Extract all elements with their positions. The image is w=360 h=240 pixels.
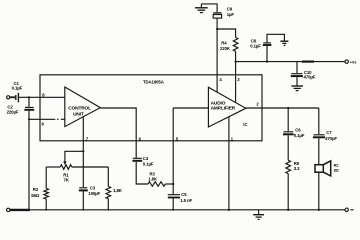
- wire: [287, 174, 289, 210]
- svg-text:AMPLIFIER: AMPLIFIER: [211, 106, 236, 112]
- ground top: [195, 4, 208, 13]
- svg-text:+Vs: +Vs: [350, 60, 357, 64]
- svg-text:0.1µF: 0.1µF: [143, 161, 154, 166]
- wire pin4: [216, 29, 218, 92]
- wire: [216, 18, 218, 29]
- wire: [82, 192, 84, 210]
- svg-text:UNIT: UNIT: [73, 111, 84, 117]
- svg-text:1.8K: 1.8K: [148, 177, 158, 182]
- wire pin3: [235, 51, 237, 102]
- node C8 junction: [266, 61, 268, 63]
- ground C10: [291, 86, 303, 91]
- node wiper junction: [82, 150, 84, 152]
- resistor R3: [148, 182, 165, 187]
- svg-text:9: 9: [42, 122, 45, 127]
- wire pin1: [228, 117, 230, 210]
- terminal bottom right: [345, 208, 348, 211]
- ground bottom: [253, 210, 264, 220]
- svg-text:8Ω: 8Ω: [334, 167, 339, 172]
- wire control output: [100, 108, 136, 158]
- input terminal IN: [7, 96, 10, 99]
- svg-text:TDA1905A: TDA1905A: [143, 80, 164, 85]
- wire pin5 vertical: [172, 108, 174, 194]
- wire: [136, 162, 148, 184]
- wire +V rail: [236, 61, 345, 63]
- node R3 junction: [172, 183, 174, 185]
- node pin9 junction: [28, 118, 30, 120]
- node output junction: [287, 107, 289, 109]
- wire: [318, 108, 320, 134]
- terminal +Vs: [345, 60, 348, 63]
- wire: [28, 97, 30, 107]
- wiper arrow: [63, 161, 66, 165]
- wire: [10, 96, 15, 98]
- svg-text:R2: R2: [33, 187, 39, 192]
- wire pin9: [29, 118, 65, 120]
- svg-text:CONTROL: CONTROL: [68, 106, 91, 112]
- capacitor C1: [16, 93, 19, 103]
- svg-text:470µF: 470µF: [304, 75, 316, 80]
- capacitor C6: [284, 131, 294, 133]
- svg-text:220µF: 220µF: [7, 110, 19, 115]
- capacitor C3: [79, 187, 87, 189]
- ground C8: [280, 41, 288, 45]
- wire pin7: [82, 117, 84, 187]
- wire R4 top: [217, 29, 236, 38]
- svg-text:AUDIO: AUDIO: [211, 100, 226, 106]
- svg-text:1µF: 1µF: [227, 12, 235, 17]
- wire: [287, 108, 289, 131]
- resistor R2: [44, 188, 49, 199]
- op-amp audio amplifier triangle: [208, 87, 245, 127]
- wire: [266, 46, 268, 62]
- wire output pin2: [246, 107, 319, 109]
- wire: [28, 111, 30, 210]
- wire: [107, 167, 109, 186]
- svg-text:IC: IC: [243, 122, 247, 127]
- svg-text:7K: 7K: [64, 178, 70, 183]
- capacitor C4: [133, 157, 142, 159]
- wire: [46, 166, 60, 168]
- svg-text:4: 4: [219, 77, 222, 82]
- svg-text:470µF: 470µF: [325, 136, 337, 141]
- svg-text:3.3: 3.3: [294, 166, 300, 171]
- svg-text:1,8K: 1,8K: [113, 188, 123, 193]
- node rail junctions: [28, 209, 320, 211]
- svg-text:C6: C6: [295, 127, 301, 132]
- node supply junction: [235, 61, 237, 63]
- svg-text:C7: C7: [326, 130, 332, 135]
- svg-text:C5: C5: [181, 192, 187, 197]
- speaker LS: [315, 161, 331, 176]
- wire: [45, 199, 47, 210]
- svg-text:8: 8: [42, 92, 45, 97]
- svg-text:3: 3: [237, 77, 240, 82]
- op-amp U1 IC boundary box: [40, 75, 262, 141]
- svg-text:0.1µF: 0.1µF: [12, 86, 23, 91]
- wire: [267, 34, 284, 43]
- capacitor C9: [213, 12, 221, 14]
- capacitor C7: [314, 134, 325, 136]
- svg-text:C9: C9: [227, 7, 233, 12]
- node C9 junction: [216, 28, 218, 30]
- svg-text:0.1µF: 0.1µF: [294, 133, 305, 138]
- resistor R6 1.8K: [106, 186, 111, 198]
- wire: [107, 199, 109, 210]
- capacitor C10: [291, 73, 302, 75]
- resistor R5: [286, 160, 291, 173]
- capacitor C8: [263, 42, 271, 44]
- wire: [165, 183, 173, 185]
- svg-text:220K: 220K: [220, 46, 231, 51]
- wire wiper: [65, 151, 83, 161]
- svg-text:C4: C4: [143, 156, 149, 161]
- svg-text:1.5 nF: 1.5 nF: [180, 198, 192, 203]
- svg-text:100µF: 100µF: [88, 191, 100, 196]
- wire: [318, 172, 320, 210]
- wire: [172, 199, 174, 210]
- svg-text:56Ω: 56Ω: [31, 193, 40, 198]
- wire: [318, 138, 320, 164]
- wire: [296, 62, 298, 74]
- terminal GND bottom left: [7, 208, 10, 211]
- resistor R1: [60, 165, 72, 170]
- svg-text:2: 2: [256, 102, 259, 107]
- resistor R4: [233, 38, 238, 52]
- capacitor C2: [25, 106, 34, 108]
- wire amp input: [173, 107, 208, 109]
- svg-text:C3: C3: [90, 186, 96, 191]
- wire: [296, 77, 298, 86]
- wire: [45, 167, 47, 188]
- svg-text:0.1µF: 0.1µF: [250, 44, 261, 49]
- wire: [201, 4, 217, 12]
- capacitor C5: [168, 194, 180, 196]
- node input junction: [28, 96, 30, 98]
- op-amp control unit triangle: [65, 87, 101, 127]
- wire: [287, 135, 289, 160]
- wire pin8: [19, 96, 65, 98]
- wire ground rail: [10, 209, 345, 211]
